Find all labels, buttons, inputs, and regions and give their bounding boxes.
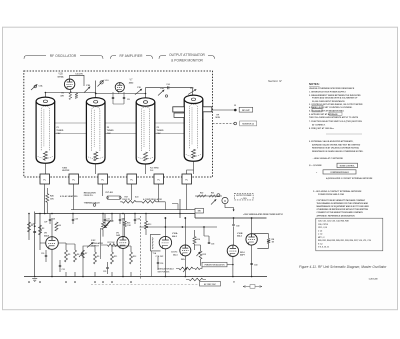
svg-text:10K: 10K	[50, 198, 54, 200]
svg-text:V 8, 9, 10, 11: V 8, 9, 10, 11	[318, 247, 329, 249]
svg-text:6.3V AC HEATERS: 6.3V AC HEATERS	[60, 195, 78, 198]
svg-text:OVT 400: OVT 400	[105, 191, 113, 194]
svg-text:MP 1, 2: MP 1, 2	[318, 237, 324, 239]
svg-text:C35: C35	[103, 271, 106, 273]
svg-text:V1B: V1B	[58, 74, 63, 76]
svg-text:R5: R5	[68, 254, 70, 256]
svg-text:C40: C40	[236, 225, 239, 228]
svg-text:C43: C43	[254, 263, 257, 266]
svg-text:C1A: C1A	[39, 85, 44, 88]
svg-text:MONITOR J3: MONITOR J3	[242, 124, 254, 126]
svg-text:4-(MODULATED 3 CONTACT EXTERNA: 4-(MODULATED 3 CONTACT EXTERNAL NETWORK	[326, 177, 373, 180]
svg-text:POWER FROM SHELF ONE: POWER FROM SHELF ONE	[318, 194, 345, 196]
svg-text:C36: C36	[160, 263, 163, 265]
svg-text:Figure 4-11. RF Unit Schemati: Figure 4-11. RF Unit Schematic Diagram, …	[299, 265, 387, 269]
svg-text:PERCENT MODULATION: PERCENT MODULATION	[205, 264, 226, 267]
svg-text:2. MEASUREMENT TAKEN BETWEEN T: 2. MEASUREMENT TAKEN BETWEEN THE INDICAT…	[309, 94, 361, 97]
svg-text:9. EXTERNAL VALUE ADJUSTED ATT: 9. EXTERNAL VALUE ADJUSTED ATTENUATE,	[309, 140, 354, 143]
svg-text:T1A: T1A	[153, 252, 157, 255]
svg-text:OUTPUT POWER: OUTPUT POWER	[236, 195, 252, 197]
svg-text:C32: C32	[62, 269, 65, 271]
svg-text:R30: R30	[200, 192, 203, 194]
svg-text:R7: R7	[85, 253, 87, 255]
svg-text:NOISE CONTROL: NOISE CONTROL	[340, 166, 356, 168]
svg-text:SW: SW	[198, 211, 201, 213]
svg-text:6AU6: 6AU6	[44, 234, 50, 237]
svg-text:20,000 OHMS INPUT RESISTANCE.: 20,000 OHMS INPUT RESISTANCE.	[312, 100, 346, 103]
svg-text:V10A: V10A	[172, 232, 178, 235]
svg-text:1/2 V11: 1/2 V11	[171, 252, 177, 254]
svg-text:6AL5: 6AL5	[173, 253, 178, 256]
svg-text:R15: R15	[203, 254, 206, 256]
svg-text:AF 15KC OSC: AF 15KC OSC	[204, 283, 217, 286]
svg-text:RESISTANCE IN AT UNLESS (CON: RESISTANCE IN AT UNLESS (CONTINUE NOTED)	[312, 147, 359, 150]
svg-text:C29: C29	[75, 219, 78, 221]
svg-text:OUTPUT ATTENUATOR: OUTPUT ATTENUATOR	[169, 53, 205, 57]
svg-text:C34: C34	[137, 218, 140, 221]
svg-text:R6: R6	[77, 254, 79, 256]
svg-text:CAV: CAV	[107, 132, 112, 135]
svg-text:R26 2.7K: R26 2.7K	[122, 199, 130, 201]
svg-text:R20, R21, R24, R25, R29, R31,: R20, R21, R24, R25, R29, R31, R33, R36, …	[318, 239, 371, 242]
svg-text:R31: R31	[211, 192, 214, 194]
svg-text:THE FOLLOWING ADJUSTMENTS APPL: THE FOLLOWING ADJUSTMENTS APPLY TO UNITS	[309, 116, 359, 119]
svg-text:RF AMPLIFIER: RF AMPLIFIER	[120, 54, 144, 58]
svg-text:C1A 1UF: C1A 1UF	[156, 255, 165, 258]
svg-text:THERMAL DELAY: THERMAL DELAY	[84, 201, 101, 204]
svg-text:R17 10K: R17 10K	[108, 242, 116, 244]
svg-text:RF OSCILLATOR: RF OSCILLATOR	[50, 54, 77, 58]
svg-text:CAV: CAV	[157, 132, 162, 135]
svg-text:R12: R12	[133, 256, 136, 258]
svg-text:RESISTANCE IN OHMS UNLESS OTHE: RESISTANCE IN OHMS UNLESS OTHERWISE NOTE…	[312, 150, 364, 153]
svg-text:C2 4.7K: C2 4.7K	[75, 73, 83, 76]
svg-text:CONSENT OF THE HEWLETT-PACKARD: CONSENT OF THE HEWLETT-PACKARD COMPANY.	[317, 211, 364, 214]
svg-text:→HIGH SIGNAL AT C NETWORK: →HIGH SIGNAL AT C NETWORK	[312, 157, 344, 160]
svg-text:MON: MON	[216, 117, 221, 119]
svg-text:CR 1, 2, B: CR 1, 2, B	[318, 227, 327, 229]
svg-text:V10B: V10B	[237, 233, 243, 235]
svg-text:C26, C27 B: C26, C27 B	[318, 224, 329, 226]
svg-text:R13: R13	[148, 224, 151, 226]
svg-text:YEL/BLK: YEL/BLK	[106, 221, 114, 223]
svg-text:MODULATION ADJ: MODULATION ADJ	[158, 268, 174, 271]
svg-text:THIS DRAWING IS INTENDED FOR T: THIS DRAWING IS INTENDED FOR THE OPERATI…	[317, 202, 369, 205]
svg-text:45: 45	[233, 281, 235, 284]
svg-text:R3: R3	[42, 228, 44, 230]
svg-text:R4: R4	[59, 224, 61, 227]
svg-text:+150V UNREGULATED FROM POWER S: +150V UNREGULATED FROM POWER SUPPLY	[243, 213, 284, 216]
svg-text:POINTS AND GROUND WITH A VOLTM: POINTS AND GROUND WITH A VOLTMETER OF	[312, 97, 358, 100]
svg-text:FL8: FL8	[150, 170, 153, 172]
svg-text:C30: C30	[41, 253, 44, 255]
svg-text:NOTES:: NOTES:	[309, 82, 320, 86]
svg-text:AT CORRECT.: AT CORRECT.	[312, 124, 326, 127]
svg-text:OTHERWISE OR REPRODUCED WITHOU: OTHERWISE OR REPRODUCED WITHOUT THE WRIT…	[317, 209, 369, 211]
svg-text:COPYRIGHT 1958 BY HEWLETT-PACK: COPYRIGHT 1958 BY HEWLETT-PACKARD COMPAN…	[317, 199, 366, 202]
svg-text:APPENDIX: REFERENCE DESIGNATIO: APPENDIX: REFERENCE DESIGNATION	[317, 215, 356, 218]
svg-text:TUNED: TUNED	[107, 130, 114, 132]
svg-text:① + ② NOISE: ① + ② NOISE	[309, 164, 322, 167]
svg-text:Section IV: Section IV	[268, 79, 283, 83]
svg-text:1. INTERIOR AT HIGH POWER SUP: 1. INTERIOR AT HIGH POWER SUPPLY	[309, 91, 346, 94]
svg-text:47K: 47K	[60, 94, 64, 97]
svg-text:TUNED: TUNED	[56, 130, 63, 132]
svg-text:REGULATOR: REGULATOR	[84, 191, 96, 194]
svg-text:CAV: CAV	[56, 132, 61, 135]
svg-text:AVERAGE VALUE SHOWN, MAY NOT B: AVERAGE VALUE SHOWN, MAY NOT BE OMITTED	[312, 143, 361, 146]
svg-text:C20, C21, C23, C30, C32, R35,: C20, C21, C23, C30, C32, R35, R38	[318, 221, 349, 223]
svg-text:C1B: C1B	[86, 85, 91, 87]
svg-text:UNLESS OTHERWISE SPECIFIED RES: UNLESS OTHERWISE SPECIFIED RESISTANCE	[309, 87, 355, 90]
svg-text:F—INCLUDING 3-CONTACT EXTERNAL: F—INCLUDING 3-CONTACT EXTERNAL NETWORK	[313, 190, 362, 193]
svg-text:3 MC: 3 MC	[91, 240, 96, 242]
svg-text:R9: R9	[97, 256, 99, 258]
svg-text:TUNED: TUNED	[157, 130, 164, 132]
svg-text:L 1,2: L 1,2	[318, 234, 322, 236]
svg-text:HEATER: HEATER	[62, 169, 70, 172]
svg-text:& POWER MONITOR: & POWER MONITOR	[171, 59, 203, 63]
svg-text:7. FUNCTION SELECTOR SWITCH S: 7. FUNCTION SELECTOR SWITCH S-3 (TWO) SE…	[309, 121, 362, 123]
svg-text:S 1,2: S 1,2	[318, 243, 322, 245]
svg-text:COMPENSATION ADJ: COMPENSATION ADJ	[330, 171, 349, 174]
svg-text:C28: C28	[32, 224, 35, 226]
svg-text:5876A: 5876A	[57, 75, 64, 78]
svg-text:J 1,2: J 1,2	[318, 230, 322, 232]
svg-text:A COMP REGULATOR: A COMP REGULATOR	[143, 198, 163, 201]
svg-text:C38: C38	[211, 244, 214, 246]
svg-text:1-25 5-58: 1-25 5-58	[369, 279, 379, 281]
svg-text:R11: R11	[114, 256, 117, 258]
svg-text:M: M	[224, 200, 226, 203]
svg-text:MAINTENANCE OF EQUIPMENT AND I: MAINTENANCE OF EQUIPMENT AND IS NOT TO B…	[317, 205, 370, 208]
svg-text:FROM P.S.: FROM P.S.	[84, 195, 94, 197]
svg-text:8. FREQ SET AT 1000 Mcs.: 8. FREQ SET AT 1000 Mcs.	[309, 127, 335, 130]
svg-text:C9: C9	[39, 228, 41, 230]
svg-text:+ -10%: + -10%	[241, 198, 247, 200]
svg-text:SET FOR 30%: SET FOR 30%	[158, 271, 170, 273]
svg-text:6AP7: 6AP7	[240, 254, 246, 257]
svg-text:RF OUT: RF OUT	[242, 110, 250, 112]
svg-text:A33: A33	[135, 196, 138, 199]
